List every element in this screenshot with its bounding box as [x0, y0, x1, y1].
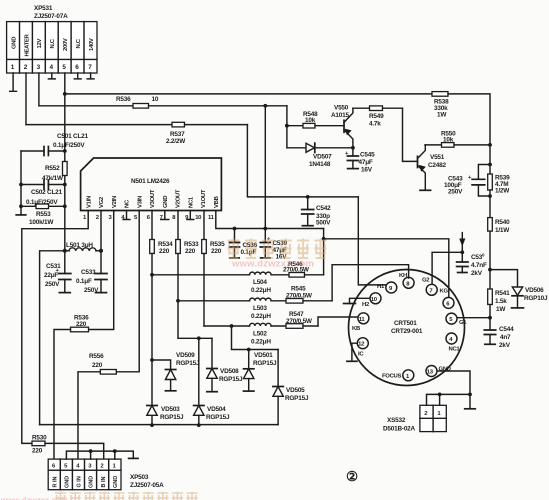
inductor L503: [178, 298, 286, 320]
svg-text:2.2/2W: 2.2/2W: [166, 138, 186, 145]
node R550 right: [488, 143, 492, 147]
ground VD501: [244, 390, 254, 392]
svg-text:270/0.5W: 270/0.5W: [286, 293, 313, 300]
svg-text:0.1μF/250V: 0.1μF/250V: [53, 142, 85, 149]
capacitor C530: [457, 252, 487, 277]
svg-text:4n7: 4n7: [500, 334, 511, 341]
diode VD504 RGP15J: [194, 338, 230, 425]
resistor R546: [283, 261, 324, 277]
svg-text:L502: L502: [253, 331, 267, 338]
CRT pin 1 FOCUS: [382, 370, 414, 381]
node G1/C544: [488, 316, 492, 320]
wire heater line right of R537: [185, 124, 248, 126]
svg-text:140V: 140V: [89, 38, 95, 51]
svg-text:VD506: VD506: [525, 287, 544, 294]
node V3OUT branch: [150, 273, 154, 277]
svg-text:CRT501: CRT501: [394, 320, 417, 327]
svg-text:G1: G1: [459, 320, 467, 326]
resistor R547: [286, 311, 318, 328]
node C536 junction: [233, 227, 237, 231]
capacitor C543: [444, 165, 490, 197]
wire G2 node to CRT pin7: [432, 252, 462, 284]
svg-text:2kV: 2kV: [499, 342, 511, 349]
svg-text:XP503: XP503: [130, 474, 149, 481]
svg-text:GND: GND: [163, 196, 169, 208]
node VBB/12V junction: [263, 227, 267, 231]
transistor Q V551 C2482: [418, 145, 447, 190]
CRT pin 6: [443, 297, 454, 308]
wire R546 riser to rail: [323, 229, 325, 275]
wire 12V line to R536: [39, 105, 133, 107]
svg-text:250V: 250V: [45, 281, 60, 288]
svg-text:V3IN: V3IN: [137, 196, 143, 208]
capacitor C542: [302, 197, 331, 227]
svg-text:N501 LM2426: N501 LM2426: [131, 178, 170, 185]
svg-text:C542: C542: [316, 205, 331, 212]
svg-text:RGP15J: RGP15J: [253, 360, 277, 367]
svg-text:C502 CL21: C502 CL21: [31, 189, 63, 196]
wire 200V to right bus: [448, 94, 490, 145]
svg-text:NC: NC: [125, 199, 131, 208]
svg-text:NC1: NC1: [449, 347, 461, 353]
node VD504 top: [197, 336, 201, 340]
diode VD508 RGP15J: [207, 338, 243, 391]
svg-text:R547: R547: [289, 311, 304, 318]
svg-text:C544: C544: [499, 326, 514, 333]
node VD509 branch: [150, 358, 154, 362]
node VD504 bus: [197, 423, 201, 427]
node XS532 bus: [468, 393, 472, 397]
node R539 bottom: [488, 194, 492, 198]
resistor R536 (10): [133, 104, 149, 109]
svg-text:R IN: R IN: [52, 476, 58, 487]
wire VG2 pin2 to L501: [100, 211, 102, 251]
svg-text:2kV: 2kV: [471, 270, 483, 277]
wire V3OUT chain down: [151, 275, 153, 425]
svg-text:R530: R530: [32, 435, 47, 442]
svg-text:0.22μH: 0.22μH: [251, 339, 271, 346]
svg-text:RGP15J: RGP15J: [219, 376, 243, 383]
ground C542: [302, 225, 313, 227]
op-amp U1 IC N501 LM2426 body: [81, 158, 222, 211]
svg-text:www.dzwzxz.com: www.dzwzxz.com: [231, 259, 314, 270]
resistor R536 (220): [71, 315, 90, 332]
svg-text:200V: 200V: [63, 38, 69, 51]
inductor L502: [204, 323, 286, 345]
svg-text:R552: R552: [45, 165, 60, 172]
resistor R534 on V3OUT: [150, 211, 173, 275]
node 200V branch: [63, 92, 67, 96]
wire left branch down: [20, 151, 22, 215]
svg-text:C545: C545: [360, 152, 375, 159]
svg-text:10: 10: [371, 297, 378, 303]
IC pin7 GND stub ground: [161, 211, 169, 220]
svg-text:ZJ2507-05A: ZJ2507-05A: [130, 482, 164, 489]
svg-text:V1OUT: V1OUT: [201, 189, 207, 208]
resistor R535 on V1OUT: [202, 211, 225, 327]
wire right bus down: [489, 145, 491, 174]
node R553 right: [63, 204, 67, 208]
svg-text:KG: KG: [440, 289, 449, 295]
svg-text:RGP15J: RGP15J: [206, 414, 230, 421]
svg-text:KH: KH: [399, 273, 407, 279]
svg-text:KB: KB: [352, 326, 360, 332]
pin 1 stub ground: [10, 73, 17, 91]
svg-text:1/2W: 1/2W: [495, 188, 510, 195]
svg-text:16V: 16V: [361, 167, 373, 174]
node 12V drop: [263, 104, 267, 108]
svg-text:RGP15J: RGP15J: [160, 414, 184, 421]
connector XP531 body: [7, 22, 97, 73]
wire heater line to R537: [26, 124, 172, 126]
svg-text:1.5k: 1.5k: [495, 298, 507, 305]
svg-text:R541: R541: [495, 290, 510, 297]
svg-text:VD507: VD507: [313, 154, 332, 161]
wire 200V chain down to L501: [64, 185, 66, 251]
IC pin numbers: [83, 215, 215, 221]
wire line1 to CRT pin6: [324, 239, 449, 297]
ground H2: [344, 303, 356, 305]
ground pin12: [347, 360, 357, 362]
pin 7 stub: [87, 73, 94, 79]
node C543 top: [488, 163, 492, 167]
capacitor C539: [260, 229, 287, 261]
capacitor C536: [230, 229, 258, 258]
svg-text:L503: L503: [253, 305, 267, 312]
CRT pin 4 NC1: [446, 333, 460, 353]
svg-text:R545: R545: [291, 286, 306, 293]
node R548 branch: [285, 124, 289, 128]
capacitor C544: [484, 318, 514, 349]
node G2/C530: [460, 250, 464, 254]
node VD506 branch: [488, 268, 492, 272]
wire R545 route to CRT pin8 KH: [332, 265, 409, 301]
ground C536: [230, 257, 239, 259]
svg-text:R553: R553: [36, 211, 51, 218]
watermark center: [228, 238, 327, 269]
CRT pin 5 G1: [446, 313, 467, 326]
svg-text:R537: R537: [170, 131, 185, 138]
svg-text:H2: H2: [362, 302, 370, 308]
svg-text:VD501: VD501: [254, 352, 273, 359]
IC pin9 NC1 stub: [187, 211, 194, 220]
svg-text:N.C: N.C: [50, 38, 56, 48]
wire XS532 pins bus: [427, 394, 471, 405]
CRT pin 11 KB: [352, 313, 369, 332]
watermark bottom: [0, 492, 198, 500]
node V2OUT branch: [176, 299, 180, 303]
diode VD505 RGP15J: [273, 350, 309, 425]
node gnd pin3: [89, 449, 93, 453]
svg-text:R540: R540: [495, 219, 510, 226]
svg-text:G IN: G IN: [77, 476, 83, 487]
svg-text:CRT29-001: CRT29-001: [391, 328, 423, 335]
svg-text:V3OUT: V3OUT: [150, 189, 156, 208]
svg-text:0.22μH: 0.22μH: [251, 313, 271, 320]
svg-text:R536: R536: [116, 96, 131, 103]
resistor R549: [353, 106, 403, 128]
wire heater chain down-right: [247, 125, 358, 197]
svg-text:R556: R556: [89, 353, 104, 360]
wire G1 to CRT pin5: [457, 317, 490, 319]
svg-text:V2IN: V2IN: [112, 196, 118, 208]
CRT socket CRT501 circle: [349, 270, 465, 386]
diode VD506 RGP10J: [490, 270, 548, 308]
ground C530: [458, 272, 467, 274]
svg-text:V551: V551: [430, 154, 445, 161]
diode VD509 RGP15J: [152, 352, 200, 391]
svg-text:0.1μF: 0.1μF: [76, 278, 92, 285]
watermark char: [245, 238, 257, 258]
diode VD503 RGP15J: [147, 406, 184, 422]
svg-text:1W: 1W: [437, 112, 447, 119]
svg-text:47μF: 47μF: [359, 159, 373, 166]
node L502 diode branch: [230, 324, 234, 328]
CRT pin 12 IC: [357, 338, 368, 358]
wire clamp bus: [40, 424, 279, 426]
svg-text:VD504: VD504: [207, 406, 226, 413]
svg-text:1/1W: 1/1W: [495, 227, 510, 234]
svg-text:4.7k: 4.7k: [369, 121, 381, 128]
CRT pin 13 GND: [426, 366, 451, 377]
svg-text:1N4148: 1N4148: [309, 161, 331, 168]
svg-text:4.7nF: 4.7nF: [471, 262, 487, 269]
watermark char: [280, 238, 292, 258]
wire VBB pin11 down to rail: [216, 211, 324, 229]
node C545 junction: [351, 146, 355, 150]
svg-text:GND: GND: [113, 476, 119, 488]
wire L501 left riser to bus: [40, 251, 65, 425]
resistor R552: [42, 151, 67, 185]
svg-text:220: 220: [211, 248, 222, 255]
wire R547 route to CRT pin11 KB: [318, 317, 357, 326]
node L501 left: [63, 249, 67, 253]
CRT pin 7 G2/KG: [422, 278, 448, 296]
svg-text:NC1: NC1: [189, 196, 195, 208]
resistor R530: [32, 435, 47, 455]
wire R530 to XP503 pin2: [45, 443, 104, 459]
svg-text:220: 220: [92, 362, 103, 369]
connector XP503: [48, 459, 164, 490]
CRT pin 9 H1: [377, 282, 397, 293]
svg-text:G2: G2: [422, 278, 430, 284]
wire pin13 GND route: [437, 371, 470, 409]
wire heater pin2 down: [25, 73, 27, 125]
svg-text:HEATER: HEATER: [24, 33, 30, 56]
svg-text:VD508: VD508: [220, 368, 239, 375]
IC pin4 NC stub: [123, 211, 130, 220]
ground C544: [485, 343, 495, 345]
svg-text:1W: 1W: [496, 306, 506, 313]
node gnd pin1: [113, 449, 117, 453]
wire heater descent to H1: [358, 197, 386, 285]
ground VD508: [207, 391, 217, 393]
svg-text:12: 12: [358, 342, 365, 348]
resistor R537: [172, 122, 185, 127]
resistor R539: [488, 174, 511, 218]
connector XS532: [383, 405, 446, 432]
ground C531: [59, 292, 70, 294]
svg-text:RGP10J: RGP10J: [524, 295, 548, 302]
svg-text:www.dzwzxz.com: www.dzwzxz.com: [0, 496, 68, 500]
wire V2OUT chain to VD504/VD508: [178, 301, 212, 339]
wire 12V line right of R536: [149, 105, 287, 107]
svg-text:GND: GND: [89, 476, 95, 488]
svg-text:0.22μH: 0.22μH: [251, 287, 271, 294]
svg-text:22μF: 22μF: [44, 272, 58, 279]
svg-text:C501 CL21: C501 CL21: [57, 133, 89, 140]
svg-text:VD509: VD509: [176, 352, 195, 359]
node line1 branch: [322, 237, 326, 241]
svg-text:VD503: VD503: [161, 406, 180, 413]
svg-text:V1IN: V1IN: [86, 196, 92, 208]
svg-text:C2482: C2482: [428, 162, 446, 169]
svg-text:VD505: VD505: [286, 387, 305, 394]
resistor R540: [488, 218, 511, 289]
node R553 left: [19, 204, 23, 208]
node L501 right: [99, 249, 103, 253]
wire 200V pin5 down: [64, 73, 66, 151]
wire 200V line to R538: [65, 93, 432, 95]
resistor R533 on V2OUT: [176, 211, 199, 301]
wire XP503 gnd bus: [66, 451, 133, 459]
capacitor C501: [21, 133, 89, 156]
capacitor C531: [44, 251, 71, 293]
resistor R538: [432, 92, 449, 119]
node XS532 pin1: [438, 393, 442, 397]
wire V3IN route down: [116, 211, 139, 372]
wire R536 left to XP503 pin6 riser: [54, 330, 71, 460]
node C542 top: [306, 195, 310, 199]
ground VD506: [512, 307, 524, 309]
ground XP503: [129, 457, 138, 459]
capacitor C502: [21, 180, 65, 206]
ground C545: [348, 168, 359, 170]
svg-text:V2OUT: V2OUT: [176, 189, 182, 208]
svg-text:FOCUS: FOCUS: [382, 374, 401, 380]
svg-text:13: 13: [427, 370, 434, 376]
diode VD507 1N4148: [287, 143, 353, 168]
svg-text:R549: R549: [369, 113, 384, 120]
arrow flyback feed: [459, 233, 465, 253]
svg-text:10k: 10k: [305, 117, 316, 124]
wire V1IN route: [22, 211, 88, 444]
resistor R545: [286, 286, 332, 304]
svg-text:10: 10: [152, 96, 159, 103]
CRT pin 10 H2: [362, 293, 381, 308]
ground left branch: [16, 214, 26, 216]
svg-text:V550: V550: [334, 105, 349, 112]
watermark char: [262, 238, 274, 258]
svg-text:D501B-02A: D501B-02A: [383, 426, 416, 433]
svg-text:10: 10: [195, 215, 202, 221]
svg-text:10k: 10k: [443, 137, 454, 144]
capacitor C533: [76, 251, 107, 294]
svg-text:250V: 250V: [448, 189, 463, 196]
node C502 left: [19, 183, 23, 187]
watermark char: [315, 238, 327, 258]
ground VD509: [165, 390, 175, 392]
svg-text:270/0.5W: 270/0.5W: [286, 318, 313, 325]
inductor L501: [65, 242, 101, 251]
wire R556 left to XP503 pin4 riser: [78, 372, 100, 459]
svg-text:100k/1W: 100k/1W: [29, 219, 54, 226]
ground pin13: [465, 408, 476, 410]
diode VD501 RGP15J: [244, 350, 277, 392]
svg-text:VBB: VBB: [214, 196, 220, 208]
svg-text:ZJ2507-07A: ZJ2507-07A: [34, 13, 68, 20]
svg-text:220: 220: [159, 248, 170, 255]
wire 12V pin3 down: [38, 73, 40, 106]
svg-text:XP531: XP531: [34, 5, 53, 12]
node C501 right: [63, 149, 67, 153]
wire 12V drop: [264, 106, 266, 229]
ground V551 emitter: [420, 189, 431, 191]
ground C533: [96, 292, 107, 294]
wire H2 to ground: [350, 298, 370, 303]
pin 4 stub: [48, 73, 55, 79]
svg-text:500V: 500V: [316, 220, 331, 227]
svg-text:H1: H1: [377, 284, 385, 290]
wire 12V vertical to R548 node: [286, 106, 288, 148]
wire V2IN route down: [89, 211, 114, 330]
resistor R541: [488, 289, 510, 318]
svg-text:47k/1W: 47k/1W: [42, 175, 64, 182]
node VD503 bus: [150, 423, 154, 427]
svg-text:N.C: N.C: [76, 38, 82, 48]
inductor L504: [152, 272, 289, 294]
svg-text:GND: GND: [11, 37, 17, 49]
svg-text:GND: GND: [65, 476, 71, 488]
svg-text:XS532: XS532: [387, 417, 406, 424]
wire R549 to V551 base: [403, 108, 418, 161]
svg-text:②: ②: [346, 469, 358, 484]
svg-text:12V: 12V: [37, 39, 43, 49]
svg-text:VG2: VG2: [99, 196, 105, 208]
svg-text:L504: L504: [253, 279, 267, 286]
svg-text:C531: C531: [46, 263, 61, 270]
svg-text:C533: C533: [81, 269, 96, 276]
transistor Q V550 A1015: [331, 105, 353, 148]
svg-text:RGP15J: RGP15J: [285, 395, 309, 402]
ground C539: [261, 257, 270, 259]
svg-text:B IN: B IN: [101, 476, 107, 487]
resistor R556 (220): [89, 353, 116, 374]
svg-text:220: 220: [76, 321, 87, 328]
capacitor C545: [345, 148, 375, 174]
watermark char: [228, 238, 240, 258]
wire diode jog: [232, 326, 279, 350]
CRT pin 8 KH: [399, 273, 414, 288]
svg-text:220: 220: [32, 448, 43, 455]
node C502 right: [63, 183, 67, 187]
resistor R553: [21, 204, 65, 226]
svg-text:A1015: A1015: [331, 112, 349, 119]
watermark char: [297, 238, 309, 258]
svg-text:RGP15J: RGP15J: [176, 360, 200, 367]
node VD501 branch: [247, 348, 251, 352]
svg-text:220: 220: [185, 248, 196, 255]
pin 6 stub: [74, 73, 81, 79]
resistor R550: [425, 131, 490, 148]
wire pin12 to ground: [352, 343, 357, 361]
resistor R548: [287, 111, 344, 128]
svg-text:C53: C53: [471, 254, 483, 261]
